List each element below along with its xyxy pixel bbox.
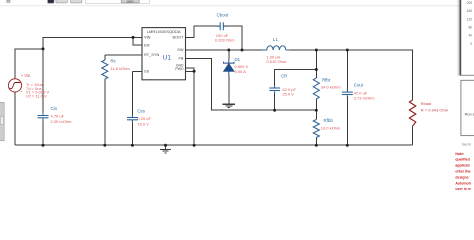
svg-text:34.0 kOhm: 34.0 kOhm bbox=[321, 84, 341, 89]
svg-text:D1: D1 bbox=[235, 57, 241, 62]
svg-text:Automoti: Automoti bbox=[455, 181, 470, 185]
svg-text:80: 80 bbox=[469, 26, 473, 30]
svg-text:0.010 Ohm: 0.010 Ohm bbox=[266, 59, 286, 64]
svg-text:120: 120 bbox=[467, 17, 473, 21]
svg-text:Rload: Rload bbox=[421, 101, 431, 106]
svg-text:Rc: Rc bbox=[111, 59, 117, 64]
svg-text:40: 40 bbox=[469, 34, 473, 38]
svg-text:Rfbb: Rfbb bbox=[324, 118, 334, 123]
svg-text:Cout: Cout bbox=[354, 82, 364, 87]
svg-text:FB: FB bbox=[179, 55, 184, 60]
svg-text:PWD: PWD bbox=[175, 67, 184, 71]
svg-text:L1: L1 bbox=[273, 37, 278, 42]
svg-text:Rfbt: Rfbt bbox=[322, 77, 331, 82]
svg-text:EN: EN bbox=[144, 42, 150, 47]
svg-text:Run el: Run el bbox=[465, 113, 474, 117]
svg-text:RT_SYN: RT_SYN bbox=[144, 52, 159, 57]
svg-text:Note:: Note: bbox=[455, 152, 464, 156]
svg-text:BOOT: BOOT bbox=[172, 35, 184, 40]
svg-text:25.0 V: 25.0 V bbox=[282, 92, 294, 97]
svg-text:200: 200 bbox=[467, 1, 473, 5]
svg-text:SW: SW bbox=[177, 47, 184, 52]
svg-text:Cin: Cin bbox=[51, 106, 58, 111]
svg-text:2.00 mOhm: 2.00 mOhm bbox=[51, 119, 73, 124]
svg-text:11.6 kOhm: 11.6 kOhm bbox=[111, 66, 131, 71]
svg-text:160: 160 bbox=[467, 9, 473, 13]
svg-text:R = 0.943 Ohm: R = 0.943 Ohm bbox=[421, 107, 449, 112]
svg-text:applicati: applicati bbox=[455, 164, 469, 168]
svg-text:0: 0 bbox=[470, 42, 472, 46]
svg-text:SS: SS bbox=[144, 69, 150, 74]
svg-text:3.73 mOhm: 3.73 mOhm bbox=[354, 95, 376, 100]
svg-text:CR: CR bbox=[281, 74, 287, 79]
svg-text:4.70 uF: 4.70 uF bbox=[51, 114, 65, 119]
svg-text:−: − bbox=[20, 89, 23, 94]
svg-text:V2 = 11.0 V: V2 = 11.0 V bbox=[26, 94, 47, 99]
svg-text:100%: 100% bbox=[127, 0, 134, 3]
svg-text:qualified: qualified bbox=[455, 158, 469, 162]
svg-text:LMR14030SQDDA: LMR14030SQDDA bbox=[147, 29, 181, 34]
svg-text:designs: designs bbox=[455, 175, 468, 179]
svg-text:0.200 Ohm: 0.200 Ohm bbox=[215, 38, 235, 43]
svg-text:0.20 uF: 0.20 uF bbox=[137, 116, 151, 121]
svg-text:See te: See te bbox=[462, 142, 471, 146]
svg-text:other tha: other tha bbox=[455, 170, 470, 174]
svg-text:10.0 kOhm: 10.0 kOhm bbox=[321, 126, 341, 131]
svg-text:VIN: VIN bbox=[144, 35, 151, 40]
svg-text:+ Vin: + Vin bbox=[21, 73, 31, 78]
svg-text:Cboot: Cboot bbox=[217, 12, 229, 17]
svg-text:5.00 A: 5.00 A bbox=[235, 69, 247, 74]
svg-text:16.0 V: 16.0 V bbox=[137, 121, 149, 126]
svg-text:U1: U1 bbox=[163, 54, 172, 61]
svg-text:Css: Css bbox=[137, 108, 145, 113]
svg-text:user is re: user is re bbox=[455, 187, 471, 190]
